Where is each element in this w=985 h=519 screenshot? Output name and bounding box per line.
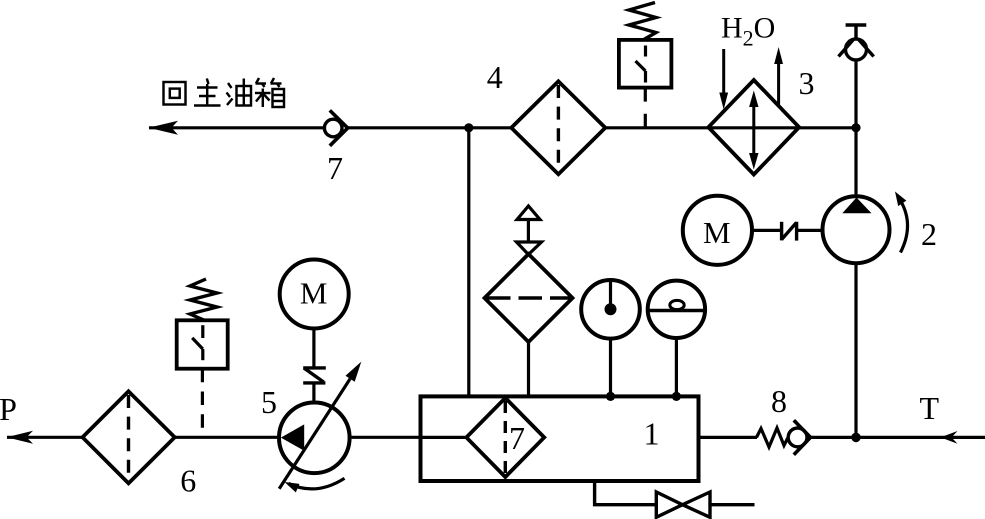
- node at tank top: [672, 392, 681, 401]
- breather filter stem to tank: [527, 342, 530, 397]
- svg-text:8: 8: [771, 383, 787, 419]
- shaft M down: [312, 329, 315, 367]
- check valve 8 seat: [794, 420, 811, 455]
- wire: filter 6 to pump 5: [175, 436, 280, 439]
- svg-text:3: 3: [799, 65, 815, 101]
- wire: inside tank to filter 7: [421, 436, 467, 439]
- wire: vertical to pump 2: [854, 60, 857, 197]
- coupling symbol: [780, 222, 783, 241]
- pressure gauge stem: [609, 339, 612, 397]
- cooler 3 internal double arrow shaft: [752, 102, 755, 158]
- check valve 7: seat: [330, 110, 348, 145]
- filter 4 diamond: [511, 81, 605, 174]
- motor M (right): [683, 196, 752, 265]
- pump 2 triangle: [842, 198, 871, 214]
- filter 7 dashed element: [504, 401, 507, 474]
- wire: P line: [7, 436, 83, 439]
- pressure gauge: [581, 280, 640, 339]
- wire: tank to check valve 8: [699, 436, 758, 439]
- relief valve (left) spring: [190, 279, 217, 321]
- air bleed valve: stem: [854, 25, 857, 40]
- shaft coupling to pump 2: [797, 229, 823, 232]
- tank drain line: [595, 481, 656, 505]
- tank 1: [421, 396, 699, 481]
- drain valve bowtie right: [683, 492, 711, 517]
- filter 4 dashed element: [557, 85, 560, 171]
- filter 7 diamond (in tank): [466, 398, 544, 477]
- pump 2 rotation arc: [899, 198, 908, 253]
- air breather stem: [527, 220, 530, 243]
- pump 2 circle: [823, 196, 890, 263]
- check valve 8 ball: [788, 428, 807, 447]
- node junction (top line / vertical): [464, 123, 473, 132]
- level gauge stem: [675, 338, 678, 396]
- cooler 3 internal arrowhead down: [749, 153, 758, 170]
- check valve 7: ball: [324, 119, 342, 137]
- check valve 8 spring: [757, 428, 789, 447]
- breather filter dashed element: [487, 296, 571, 299]
- svg-text:7: 7: [327, 150, 343, 186]
- wire: pump 2 to bottom junction: [854, 263, 857, 437]
- shaft M to coupling: [752, 229, 781, 232]
- arrowhead T (pointing left, mid line): [941, 431, 958, 444]
- cooler 3 diamond: [708, 80, 799, 175]
- svg-text:7: 7: [509, 420, 525, 456]
- 箱: 目: [273, 89, 285, 107]
- 回: [164, 82, 186, 105]
- wire: top line right segment: [605, 126, 856, 129]
- air bleed valve: top bar: [846, 23, 867, 26]
- 箱: [256, 78, 259, 84]
- pump 5 circle: [279, 403, 350, 474]
- pump 5 rotation arc: [289, 478, 345, 489]
- label 回主油箱 (hand-drawn glyphs): [164, 78, 285, 107]
- filter 6 diamond: [83, 391, 175, 483]
- svg-text:M: M: [300, 276, 328, 311]
- 油: [228, 83, 232, 88]
- wire: drain out: [710, 503, 755, 506]
- pump 5 triangle (points left): [281, 424, 304, 450]
- 主: [207, 79, 209, 85]
- filter 6 dashed element: [127, 395, 130, 480]
- wire: top line middle segment: [348, 126, 512, 129]
- pump 5 variable arrow: [279, 379, 350, 489]
- wire: vertical from node to tank: [467, 128, 470, 397]
- air bleed valve: seat: [839, 40, 854, 57]
- svg-text:M: M: [703, 215, 731, 250]
- breather filter diamond: [485, 254, 573, 342]
- drain valve bowtie left: [656, 492, 682, 517]
- svg-text:T: T: [920, 390, 940, 426]
- air breather: lower triangle: [517, 242, 542, 255]
- wire: return line (top, y=127.8) left segment: [149, 126, 325, 129]
- node junction (bottom right): [851, 433, 861, 443]
- svg-text:P: P: [0, 391, 17, 427]
- level gauge: [648, 281, 705, 338]
- arrowhead left (return to tank): [149, 121, 179, 135]
- wire: pump 5 to tank: [350, 436, 421, 439]
- cooler 3 internal arrowhead up: [749, 91, 758, 108]
- node junction (top right): [851, 123, 860, 132]
- cooler water-in arrow (down): [722, 49, 725, 95]
- node at tank top: [606, 392, 615, 401]
- air bleed valve: ball: [846, 39, 867, 60]
- relief valve (left) dashed pilot line: [201, 369, 204, 438]
- relief valve (left) internal symbol: [201, 325, 204, 338]
- air breather: top triangle: [517, 206, 540, 220]
- cooler water-out arrow (up): [777, 62, 780, 105]
- svg-text:6: 6: [180, 463, 196, 499]
- svg-text:1: 1: [644, 416, 660, 452]
- relief valve (left) body: [177, 320, 228, 368]
- svg-text:4: 4: [487, 59, 503, 95]
- relief valve (top) spring: [629, 3, 656, 41]
- relief valve (top) internal symbol: [644, 46, 647, 57]
- 箱: 木: [255, 92, 271, 94]
- relief valve (top) dashed pilot line: [644, 88, 647, 128]
- motor M (left): [280, 260, 349, 329]
- svg-text:2: 2: [921, 216, 937, 252]
- arrowhead P (left): [7, 431, 34, 444]
- svg-text:5: 5: [261, 384, 277, 420]
- coupling symbol (vertical): [303, 366, 326, 369]
- relief valve (top) body: [619, 40, 672, 88]
- shaft coupling to pump 5: [312, 383, 315, 403]
- wire: T line: [811, 436, 985, 439]
